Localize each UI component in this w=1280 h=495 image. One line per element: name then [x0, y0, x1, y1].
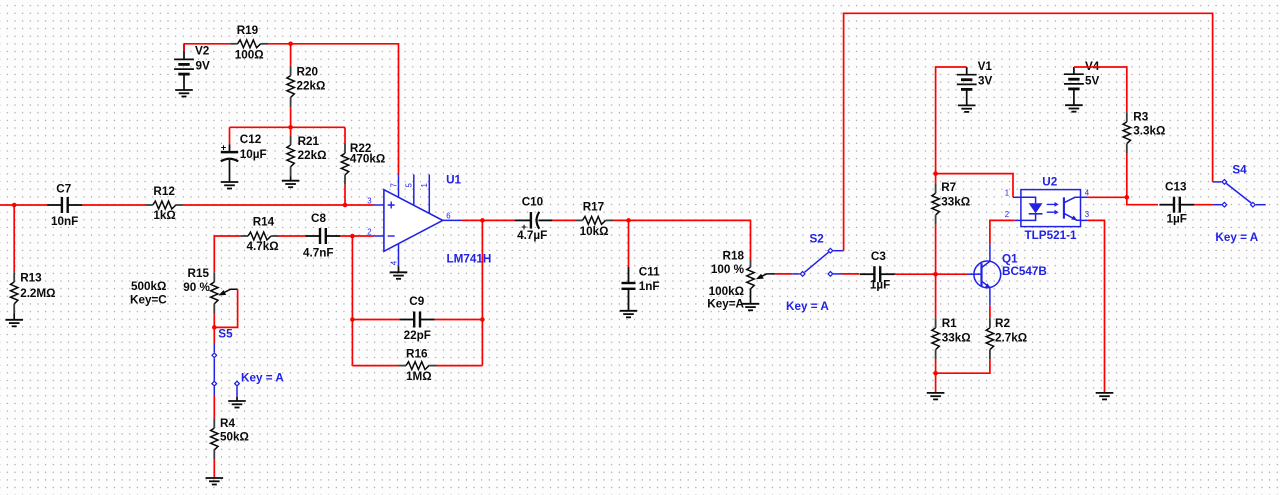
- wire R17 to R18: [613, 220, 751, 259]
- svg-text:10nF: 10nF: [51, 215, 78, 228]
- resistor R19: [230, 40, 268, 48]
- ground V4: [1065, 105, 1083, 112]
- svg-text:1: 1: [1005, 188, 1009, 197]
- svg-text:R4: R4: [220, 417, 235, 430]
- resistor R20: [287, 66, 294, 107]
- wire rail to ground: [935, 373, 937, 393]
- ground R13: [5, 314, 23, 327]
- svg-text:C11: C11: [639, 265, 660, 278]
- svg-text:22kΩ: 22kΩ: [297, 80, 326, 93]
- svg-text:TLP521-1: TLP521-1: [1025, 229, 1077, 242]
- ground U2 pin3: [1096, 393, 1114, 400]
- svg-text:R2: R2: [995, 317, 1010, 330]
- svg-text:1µF: 1µF: [1167, 213, 1187, 226]
- capacitor C3: [860, 266, 895, 282]
- svg-text:5: 5: [405, 183, 414, 188]
- capacitor C8: [305, 228, 340, 244]
- wire to C9: [352, 319, 399, 321]
- svg-text:C12: C12: [240, 133, 262, 146]
- junction input/R13: [12, 203, 17, 208]
- svg-text:C13: C13: [1165, 181, 1187, 194]
- wire node to R22: [344, 127, 346, 143]
- wire U2 pin3 to ground: [1088, 220, 1105, 393]
- wire divider node: [230, 126, 346, 128]
- svg-text:100kΩ: 100kΩ: [709, 285, 744, 298]
- svg-text:R19: R19: [237, 24, 259, 37]
- capacitor C13: [1159, 197, 1194, 213]
- svg-text:R16: R16: [406, 348, 428, 361]
- resistor R4: [211, 418, 218, 459]
- svg-text:6: 6: [446, 212, 450, 221]
- ground U1: [390, 266, 408, 279]
- svg-text:S5: S5: [218, 328, 233, 341]
- svg-text:1µF: 1µF: [870, 279, 890, 292]
- ground R4: [206, 478, 224, 485]
- junction R19/R20: [288, 42, 293, 47]
- wire R19 to U1 pin7: [268, 44, 398, 175]
- svg-text:R14: R14: [253, 215, 275, 228]
- svg-text:+: +: [221, 143, 227, 154]
- wire to C11: [628, 220, 630, 267]
- ground C11: [620, 311, 638, 318]
- capacitor C9: [400, 312, 435, 328]
- svg-text:2: 2: [367, 227, 371, 236]
- svg-text:3: 3: [367, 196, 371, 205]
- junction R17/C11: [626, 218, 631, 223]
- svg-text:4.7kΩ: 4.7kΩ: [247, 240, 279, 253]
- svg-text:Q1: Q1: [1002, 252, 1018, 265]
- svg-text:C8: C8: [311, 212, 326, 225]
- junction R15 wiper loop: [212, 325, 217, 330]
- wire R14 corner to R15: [214, 236, 240, 272]
- svg-text:3: 3: [1085, 210, 1089, 219]
- junction R20/R21/C12/R22: [288, 125, 293, 130]
- resistor R7: [932, 184, 939, 225]
- wire V1 to R7 node: [936, 67, 967, 174]
- svg-text:2: 2: [1005, 210, 1009, 219]
- wire R16 to output leg: [437, 365, 483, 367]
- wire U1 output: [462, 219, 515, 221]
- wire C8 to U1 pin2: [340, 235, 374, 237]
- svg-text:2.7kΩ: 2.7kΩ: [995, 331, 1027, 344]
- svg-text:22kΩ: 22kΩ: [298, 149, 327, 162]
- wire U2 pin4 to R3 node: [1088, 196, 1127, 198]
- wire to R16: [352, 365, 398, 367]
- resistor R17: [575, 217, 613, 225]
- svg-text:U1: U1: [446, 174, 461, 187]
- resistor R14: [241, 232, 279, 240]
- svg-text:4.7µF: 4.7µF: [517, 229, 547, 242]
- svg-text:2.2MΩ: 2.2MΩ: [20, 287, 55, 300]
- svg-text:10µF: 10µF: [240, 148, 267, 161]
- wire node to C13: [1127, 197, 1158, 204]
- resistor R3: [1123, 112, 1130, 153]
- svg-text:C10: C10: [522, 196, 544, 209]
- svg-text:V2: V2: [195, 45, 210, 58]
- battery V2: [174, 44, 194, 90]
- svg-text:S4: S4: [1232, 164, 1247, 177]
- wire C10 to R17: [552, 219, 575, 221]
- wire R15 to S5: [213, 314, 215, 344]
- resistor R12: [145, 201, 183, 209]
- wire node to U2 pin1: [936, 174, 1013, 198]
- svg-text:1nF: 1nF: [639, 280, 660, 293]
- svg-text:R15: R15: [188, 267, 210, 280]
- wire R12 to U1 pin3: [183, 204, 374, 206]
- wire to R13: [13, 205, 15, 272]
- svg-text:Key = A: Key = A: [241, 371, 284, 384]
- wire R19 to R20: [290, 44, 292, 66]
- resistor R2: [986, 318, 993, 359]
- wire S2 to C3: [842, 273, 860, 275]
- resistor R15: [211, 272, 218, 313]
- wire node to R7: [935, 174, 937, 184]
- svg-text:Key=A: Key=A: [707, 298, 744, 311]
- svg-text:1MΩ: 1MΩ: [406, 370, 432, 383]
- resistor R22: [341, 144, 348, 185]
- ground R1 R2: [927, 393, 945, 400]
- svg-text:Key = A: Key = A: [786, 300, 829, 313]
- svg-text:5V: 5V: [1085, 75, 1100, 88]
- svg-text:33kΩ: 33kΩ: [942, 331, 971, 344]
- switch S4: [1213, 180, 1266, 208]
- svg-text:R21: R21: [298, 135, 320, 148]
- wire S5 to R4: [213, 395, 215, 418]
- wire C7 to R12: [82, 204, 145, 206]
- wire node to C12: [229, 127, 231, 144]
- junction C9 right: [480, 317, 485, 322]
- resistor R21: [287, 135, 294, 176]
- ground V2: [175, 90, 193, 97]
- junction output/feedback: [480, 218, 485, 223]
- wire feedback right: [481, 220, 483, 365]
- wire V2 to R19: [184, 43, 230, 45]
- svg-text:100 %: 100 %: [711, 263, 745, 276]
- svg-text:C3: C3: [871, 250, 886, 263]
- junction pin4/R3/C13: [1125, 195, 1130, 200]
- svg-text:500kΩ: 500kΩ: [131, 280, 166, 293]
- svg-text:3.3kΩ: 3.3kΩ: [1133, 125, 1165, 138]
- svg-text:R17: R17: [583, 201, 604, 214]
- svg-text:BC547B: BC547B: [1002, 265, 1047, 278]
- svg-text:R1: R1: [942, 317, 957, 330]
- svg-text:7: 7: [389, 183, 398, 187]
- svg-text:R20: R20: [297, 66, 319, 79]
- svg-text:50kΩ: 50kΩ: [220, 431, 249, 444]
- wire R7 to base node: [935, 225, 937, 274]
- capacitor C7: [47, 197, 82, 213]
- junction C9 left: [350, 317, 355, 322]
- svg-text:3V: 3V: [978, 74, 993, 87]
- junction V1/R7/U2 pin1: [933, 171, 938, 176]
- svg-text:LM741H: LM741H: [447, 253, 492, 266]
- svg-text:22pF: 22pF: [404, 329, 431, 342]
- svg-text:33kΩ: 33kΩ: [941, 195, 970, 208]
- ground R18: [742, 304, 760, 311]
- battery V4: [1064, 67, 1084, 105]
- svg-text:90 %: 90 %: [183, 281, 210, 294]
- svg-text:4: 4: [1085, 188, 1090, 197]
- potentiometer R15 wiper: [218, 289, 237, 295]
- switch S2: [792, 248, 843, 276]
- wire feedback left: [351, 236, 353, 366]
- potentiometer R18 wiper: [756, 274, 776, 279]
- wire R1 to emitter rail: [935, 359, 937, 373]
- svg-text:R13: R13: [20, 271, 42, 284]
- svg-text:C9: C9: [409, 295, 424, 308]
- ground C12: [221, 182, 239, 189]
- svg-text:R3: R3: [1133, 110, 1148, 123]
- ground V1: [958, 105, 976, 112]
- junction R1/R2/ground: [933, 371, 938, 376]
- op-amp U1: [374, 174, 462, 266]
- svg-text:V1: V1: [978, 60, 993, 73]
- wire top rail: [844, 13, 1213, 250]
- svg-text:4.7nF: 4.7nF: [303, 246, 334, 259]
- svg-text:C7: C7: [56, 182, 71, 195]
- svg-text:Key = A: Key = A: [1215, 231, 1258, 244]
- wire R4 to ground: [213, 460, 215, 478]
- resistor R13: [11, 272, 18, 313]
- transistor Q1: [968, 244, 1001, 305]
- ground S5 alternate throw: [228, 401, 246, 408]
- wire R2 to rail: [936, 359, 990, 373]
- optocoupler U2: [1013, 190, 1088, 227]
- wire C13 to S4: [1194, 204, 1213, 206]
- svg-text:R18: R18: [723, 249, 745, 262]
- wire R18 wiper to S2: [775, 273, 792, 275]
- resistor R16: [399, 362, 437, 370]
- battery V1: [957, 67, 977, 105]
- junction R22/pin3 net: [343, 203, 348, 208]
- capacitor C11: [622, 267, 636, 311]
- svg-text:R7: R7: [941, 181, 956, 194]
- ground R21: [282, 177, 300, 188]
- wire C3 to Q1 base: [895, 273, 968, 275]
- wire at V2 top: [183, 44, 185, 52]
- svg-text:470kΩ: 470kΩ: [350, 152, 385, 165]
- wire R3 to pin4 net: [1126, 153, 1128, 197]
- svg-text:9V: 9V: [196, 60, 211, 73]
- wire U2 pin2 to Q1 collector: [990, 220, 1015, 244]
- wire emitter to R2: [989, 306, 991, 318]
- capacitor C12: [221, 143, 239, 182]
- wire node to R21: [290, 127, 292, 135]
- svg-text:100Ω: 100Ω: [235, 49, 264, 62]
- wire C9 to output leg: [435, 319, 483, 321]
- potentiometer R18: [747, 259, 754, 304]
- wire R14 to C8: [279, 235, 306, 237]
- wire R20 to node: [290, 107, 292, 127]
- switch S5: [212, 344, 239, 402]
- junction pin2/feedback: [350, 234, 355, 239]
- svg-text:U2: U2: [1042, 176, 1057, 189]
- svg-text:10kΩ: 10kΩ: [580, 225, 609, 238]
- wire wiper loop: [214, 289, 237, 327]
- wire input left: [0, 204, 48, 206]
- wire V4 to R3: [1074, 67, 1127, 112]
- capacitor C10 (polarized): [515, 212, 553, 233]
- resistor R1: [932, 318, 939, 359]
- svg-text:1kΩ: 1kΩ: [153, 209, 175, 222]
- junction base/R7/R1: [933, 272, 938, 277]
- wire R22 to pin3 net: [344, 185, 346, 205]
- svg-text:R12: R12: [153, 185, 175, 198]
- svg-text:1: 1: [420, 183, 429, 187]
- svg-text:S2: S2: [810, 232, 825, 245]
- svg-text:4: 4: [389, 260, 398, 265]
- wire base node to R1: [935, 274, 937, 318]
- svg-text:Key=C: Key=C: [130, 293, 167, 306]
